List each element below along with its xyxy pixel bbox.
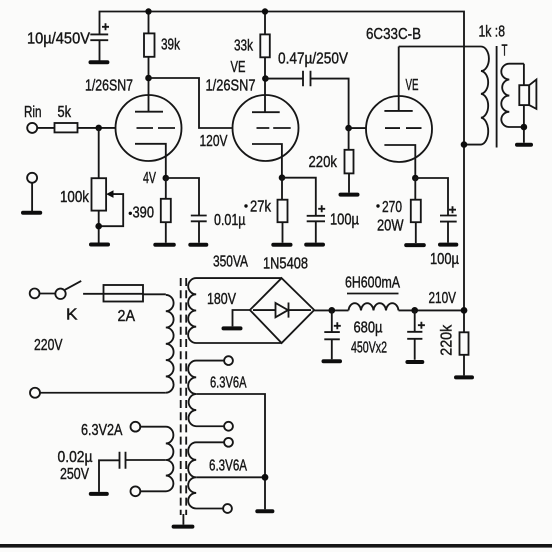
- svg-text:100k: 100k: [60, 189, 89, 206]
- svg-text:6.3V6A: 6.3V6A: [209, 458, 247, 475]
- svg-text:450Vx2: 450Vx2: [351, 340, 387, 357]
- svg-text:350VA: 350VA: [213, 254, 249, 271]
- svg-text:33k: 33k: [234, 38, 253, 55]
- svg-text:4V: 4V: [143, 170, 156, 187]
- svg-text:120V: 120V: [200, 133, 229, 150]
- svg-text:K: K: [66, 307, 78, 324]
- svg-text:220V: 220V: [34, 337, 63, 354]
- svg-text:100µ: 100µ: [330, 212, 359, 229]
- svg-text:VE: VE: [406, 77, 419, 94]
- svg-text:250V: 250V: [60, 466, 90, 483]
- svg-text:VE: VE: [231, 59, 246, 76]
- svg-text:T: T: [502, 43, 508, 60]
- svg-text:6.3V6A: 6.3V6A: [210, 375, 247, 392]
- svg-text:220k: 220k: [438, 324, 455, 355]
- svg-text:2A: 2A: [118, 308, 136, 325]
- svg-text:Rin: Rin: [24, 104, 42, 121]
- svg-text:0.47µ/250V: 0.47µ/250V: [278, 51, 349, 68]
- svg-text:6H600mA: 6H600mA: [345, 275, 401, 292]
- svg-text:680µ: 680µ: [354, 320, 383, 337]
- svg-text:0.02µ: 0.02µ: [58, 449, 93, 466]
- svg-text:1/26SN7: 1/26SN7: [85, 78, 133, 95]
- svg-text:5k: 5k: [58, 104, 72, 121]
- svg-text:27k: 27k: [250, 199, 271, 216]
- svg-text:6C33C-B: 6C33C-B: [366, 26, 421, 43]
- svg-text:210V: 210V: [429, 290, 457, 307]
- svg-text:1k :8: 1k :8: [479, 24, 506, 41]
- svg-text:20W: 20W: [377, 218, 404, 235]
- svg-text:390: 390: [133, 205, 155, 222]
- svg-text:6.3V2A: 6.3V2A: [81, 422, 123, 439]
- svg-text:180V: 180V: [207, 291, 237, 308]
- svg-text:220k: 220k: [309, 154, 338, 171]
- svg-text:1/26SN7: 1/26SN7: [206, 78, 256, 95]
- svg-text:1N5408: 1N5408: [263, 256, 308, 273]
- svg-text:0.01µ: 0.01µ: [214, 212, 246, 229]
- svg-text:10µ/450V: 10µ/450V: [27, 31, 91, 48]
- svg-text:39k: 39k: [161, 37, 180, 54]
- svg-text:270: 270: [382, 199, 402, 216]
- svg-text:100µ: 100µ: [430, 251, 459, 268]
